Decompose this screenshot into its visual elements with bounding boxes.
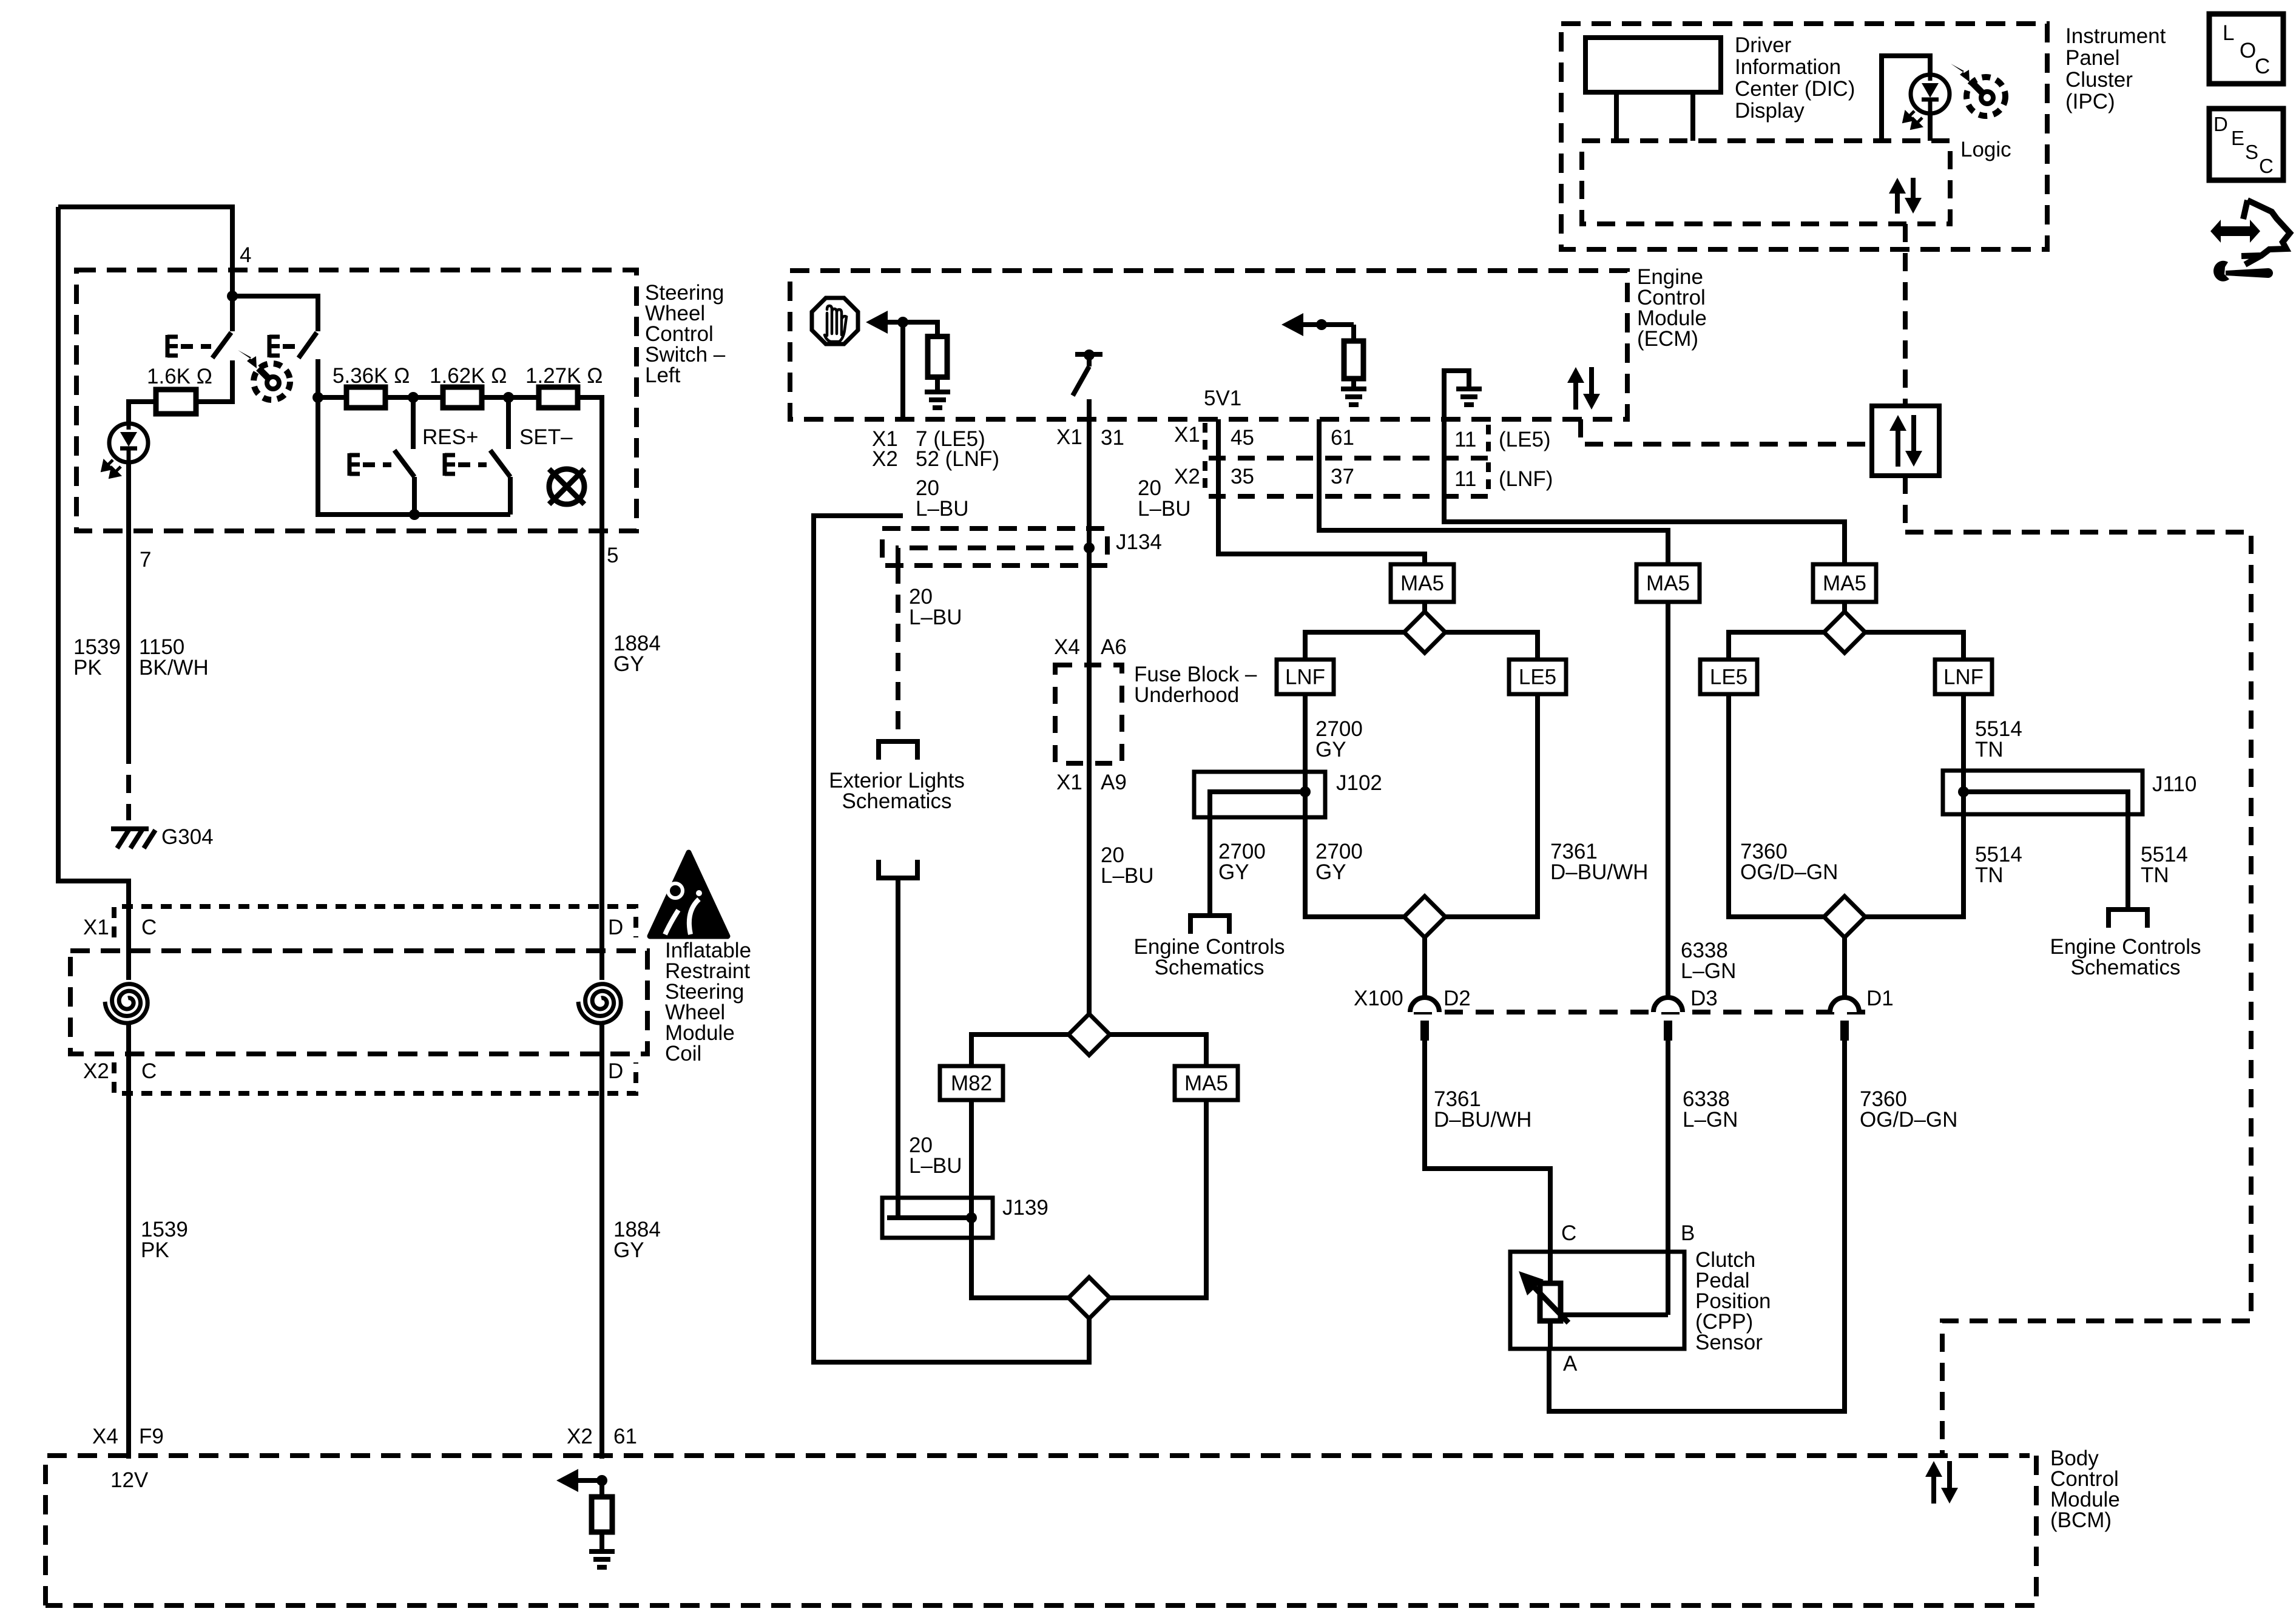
- svg-text:31: 31: [1101, 426, 1124, 450]
- wire pin45 to MA5-1: [1218, 419, 1425, 564]
- svg-text:12V: 12V: [110, 1468, 149, 1492]
- svg-text:LE5: LE5: [1710, 666, 1747, 689]
- svg-text:F9: F9: [139, 1425, 164, 1448]
- connector dotted sep colE b: [1486, 462, 1491, 493]
- junction block J134 outer (dashed): [882, 528, 1107, 565]
- wire diamond6 bottom run: [814, 516, 1089, 1362]
- resistor R1 1.6K: [156, 390, 196, 414]
- wire diamond3 right to LNF-2: [1865, 632, 1963, 660]
- RES+ pivot wire: [411, 397, 416, 449]
- serial data arrows ECM: [1567, 367, 1600, 410]
- switch actuator dashes RES+: [363, 462, 391, 467]
- junction block J110: [1943, 771, 2142, 814]
- svg-text:D3: D3: [1690, 987, 1718, 1010]
- switch S1 stub: [230, 296, 235, 331]
- svg-text:4: 4: [240, 243, 251, 267]
- wire LED down to pin 7: [126, 462, 131, 746]
- svg-text:X1: X1: [1056, 771, 1082, 794]
- wire 2700 GY main down to diamond2: [1305, 817, 1404, 917]
- fuse block underhood box (dashed): [1055, 665, 1122, 763]
- connector X100 pin D3: [1653, 998, 1683, 1041]
- ECM switch arm: [1073, 366, 1089, 396]
- IPC LED loop: [1882, 56, 1930, 141]
- RES+ switch arm: [394, 450, 414, 477]
- svg-text:MA5: MA5: [1400, 572, 1444, 595]
- svg-text:Logic: Logic: [1960, 138, 2011, 161]
- wire pin11 to MA5-3: [1444, 419, 1845, 564]
- lamp symbol switch backlight: [549, 469, 584, 504]
- junction node pin4: [227, 291, 238, 302]
- svg-text:M82: M82: [951, 1072, 992, 1095]
- wire stop node to resistor: [903, 322, 937, 337]
- ECM switch lower wire: [1087, 399, 1092, 419]
- DIC leg right: [1690, 92, 1695, 141]
- connector MA5-3 box: [1813, 564, 1876, 602]
- svg-text:B: B: [1681, 1221, 1695, 1245]
- resistor ECM pullup 2: [1344, 341, 1363, 379]
- connector MA5-4 box: [1175, 1066, 1238, 1100]
- serial data arrows gateway: [1889, 415, 1922, 467]
- serial data gateway box: [1872, 406, 1939, 476]
- airbag warning triangle icon: [650, 852, 728, 936]
- svg-text:5.36K Ω: 5.36K Ω: [333, 364, 410, 388]
- CPP pot lead top: [1548, 1252, 1553, 1283]
- arrow serial out BCM: [556, 1469, 602, 1492]
- wire diamond5 left to M82: [971, 1035, 1069, 1066]
- ground G304 symbol: [111, 829, 155, 848]
- ground ECM internal 3: [1456, 389, 1482, 405]
- wire diamond3 left to LE5-3: [1729, 632, 1824, 660]
- junction ECM node r: [1316, 319, 1327, 330]
- wire MA5-2 down to D3: [1666, 602, 1670, 998]
- svg-text:Fuse Block –Underhood: Fuse Block –Underhood: [1134, 663, 1257, 707]
- svg-text:52 (LNF): 52 (LNF): [916, 447, 999, 471]
- BCM resistor lead top: [599, 1480, 604, 1497]
- splice diamond 2: [1404, 896, 1445, 937]
- wire dashed to G304: [126, 746, 131, 820]
- BCM resistor lead bottom: [599, 1532, 604, 1551]
- junction ECM switch node: [1084, 349, 1095, 360]
- coil winding left: [105, 984, 147, 1023]
- svg-text:X1: X1: [1056, 425, 1082, 449]
- splice diamond 3: [1824, 612, 1865, 653]
- coil X1 connector dotted top staple: [114, 906, 636, 937]
- junction chain node3: [503, 392, 514, 403]
- DIC leg left: [1614, 92, 1619, 141]
- svg-text:LNF: LNF: [1943, 666, 1984, 689]
- switch actuator dashes SET-: [458, 462, 487, 467]
- bracket exterior lights return: [879, 860, 917, 878]
- clutch pedal position sensor box: [1510, 1252, 1684, 1349]
- svg-text:6338L–GN: 6338L–GN: [1683, 1087, 1738, 1132]
- ECM switch top bar: [1075, 352, 1102, 357]
- connector M82 box: [940, 1066, 1003, 1100]
- switch S2 top run: [232, 296, 318, 331]
- J102 internal branch: [1210, 792, 1305, 817]
- wire exterior lights return down: [896, 878, 900, 1218]
- connector MA5-2 box: [1636, 564, 1700, 602]
- arrow to stop hand: [866, 311, 903, 334]
- svg-text:J139: J139: [1002, 1196, 1048, 1220]
- svg-text:X1: X1: [83, 916, 109, 939]
- svg-text:5: 5: [607, 544, 618, 567]
- svg-text:LNF: LNF: [1285, 666, 1325, 689]
- serial data arrows BCM: [1925, 1461, 1958, 1504]
- svg-text:D: D: [608, 1059, 623, 1083]
- svg-text:X4: X4: [92, 1425, 118, 1448]
- potentiometer arrow CPP: [1519, 1271, 1568, 1323]
- wire pin61 to MA5-2: [1319, 419, 1668, 564]
- resistor R4 1.27K: [539, 387, 578, 408]
- svg-text:X2: X2: [872, 447, 898, 471]
- wire diamond4 to X100 D1: [1842, 937, 1847, 998]
- connector dotted sep colC b: [1203, 461, 1207, 493]
- resistor R3 1.62K: [443, 387, 482, 408]
- svg-text:D1: D1: [1866, 987, 1894, 1010]
- svg-text:Engine ControlsSchematics: Engine ControlsSchematics: [2050, 935, 2201, 979]
- bracket exterior lights: [879, 741, 917, 760]
- switch S2 arm: [299, 333, 317, 358]
- connector dotted sep colE: [1486, 425, 1491, 454]
- arrow ECM internal right: [1281, 313, 1354, 336]
- junction J102 node: [1300, 786, 1311, 797]
- instrument panel cluster IPC box (dashed): [1561, 24, 2047, 249]
- chain link c: [482, 395, 538, 400]
- switch S2 fixed terminal: [316, 359, 320, 397]
- svg-text:MA5: MA5: [1823, 572, 1866, 595]
- ground ECM internal 2: [1341, 389, 1366, 405]
- connector dashed row line 1: [1209, 456, 1490, 461]
- splice diamond 6: [1069, 1277, 1110, 1318]
- chain link b: [386, 395, 442, 400]
- chain link d to right wire: [578, 397, 602, 980]
- svg-text:LE5: LE5: [1519, 666, 1556, 689]
- junction block J102: [1194, 772, 1325, 817]
- svg-text:11: 11: [1454, 428, 1476, 451]
- wire 1539 PK lower: [126, 1024, 131, 1459]
- wire R1 to LED: [129, 402, 156, 424]
- potentiometer element CPP: [1540, 1283, 1561, 1321]
- svg-text:J110: J110: [2152, 772, 2196, 796]
- serial data dashed gateway down: [1903, 476, 1908, 532]
- connector X100 pin D1: [1830, 998, 1859, 1041]
- svg-text:G304: G304: [161, 825, 214, 849]
- svg-text:J134: J134: [1116, 530, 1162, 554]
- switch actuator E symbol S2: [269, 335, 280, 357]
- wire left main 1539 run upper: [58, 207, 129, 980]
- svg-text:RES+: RES+: [422, 425, 478, 449]
- wire diamond1 right to LE5-2: [1445, 632, 1538, 660]
- RES+ lower wire: [412, 477, 417, 515]
- connector LE5-2 box: [1509, 660, 1566, 694]
- svg-text:45: 45: [1231, 426, 1254, 450]
- coil winding right: [578, 984, 621, 1023]
- ground BCM internal: [589, 1551, 615, 1567]
- svg-text:7: 7: [140, 548, 151, 572]
- svg-text:1.27K Ω: 1.27K Ω: [525, 364, 603, 388]
- wire ECM r to resistor: [1351, 325, 1356, 341]
- svg-text:1.62K Ω: 1.62K Ω: [430, 364, 507, 388]
- svg-text:D2: D2: [1443, 987, 1471, 1010]
- wire diamond5 right to MA5-4: [1110, 1035, 1206, 1066]
- switch S1 fixed terminal: [196, 360, 232, 402]
- IPC speedometer icon: [1951, 64, 2005, 116]
- wire 5514 TN LNF-2 to J110: [1961, 694, 1966, 814]
- resistor BCM internal: [592, 1497, 612, 1532]
- wire from pin 4 top run: [58, 207, 232, 296]
- junction BCM node: [596, 1475, 607, 1486]
- LED telltale IPC: [1904, 75, 1950, 128]
- LED indicator D1 switch illumination: [103, 424, 148, 477]
- svg-text:(LNF): (LNF): [1499, 467, 1553, 491]
- wire 7361 D2 to CPP C: [1425, 1041, 1550, 1252]
- wire 20 L-BU dashed to exterior lights: [896, 565, 900, 741]
- engine control module ECM box (dashed): [790, 271, 1627, 419]
- wire diamond2 to X100 D2: [1422, 937, 1427, 998]
- inflatable restraint coil module box (dashed): [70, 951, 647, 1054]
- svg-text:Engine ControlsSchematics: Engine ControlsSchematics: [1133, 935, 1285, 979]
- bus wire bottom of switches: [318, 397, 510, 515]
- connector X100 dashed line: [1414, 1010, 1872, 1014]
- switch actuator E symbol RES+: [349, 453, 360, 476]
- SET- pivot wire: [506, 397, 511, 449]
- J139 internal branch: [887, 1215, 971, 1220]
- svg-text:J102: J102: [1336, 771, 1382, 795]
- svg-text:35: 35: [1231, 465, 1254, 488]
- wire LE5-3 down to diamond4: [1729, 694, 1824, 917]
- svg-text:X2: X2: [83, 1059, 109, 1083]
- connector dotted sep colC: [1203, 423, 1207, 454]
- switch actuator E symbol SET-: [445, 453, 455, 476]
- J110 internal branch: [1963, 792, 2128, 814]
- wire 2700 GY LNF-1 to J102: [1303, 694, 1308, 817]
- SET- lower wire: [508, 477, 513, 515]
- svg-text:X1: X1: [1174, 423, 1200, 447]
- ECM resistor2 lead: [1351, 379, 1356, 389]
- wire ECM pin7 drop: [900, 322, 905, 419]
- ECM resistor1 lead: [935, 377, 940, 392]
- junction J110 node: [1958, 786, 1969, 797]
- stop hand octagon icon: [812, 298, 858, 344]
- svg-text:X2: X2: [1174, 465, 1200, 488]
- svg-text:C: C: [141, 916, 157, 939]
- ECM switch stub: [1087, 355, 1092, 366]
- svg-text:A6: A6: [1101, 635, 1127, 659]
- CPP pot lead bottom: [1548, 1321, 1553, 1349]
- svg-text:A9: A9: [1101, 771, 1127, 794]
- wire M82 down through J139: [971, 1100, 1069, 1298]
- junction chain left node: [312, 392, 323, 403]
- serial data arrows IPC logic: [1889, 178, 1922, 214]
- splice diamond 5: [1069, 1014, 1110, 1055]
- connector LNF-1 box: [1277, 660, 1334, 694]
- junction chain node2: [408, 392, 419, 403]
- switch actuator dashes S2: [283, 344, 300, 349]
- DESC reference box: [2209, 109, 2283, 180]
- wire MA5-1 to diamond1: [1422, 602, 1427, 612]
- serial data dashed to BCM: [1905, 532, 2251, 1456]
- svg-text:EngineControlModule(ECM): EngineControlModule(ECM): [1637, 265, 1707, 351]
- svg-text:5V1: 5V1: [1204, 387, 1241, 410]
- wire MA5-4 down to diamond6: [1110, 1100, 1206, 1298]
- svg-text:61: 61: [1331, 426, 1354, 450]
- wire diamond1 left to LNF-1: [1305, 632, 1404, 660]
- wire 5514 TN main to diamond4: [1865, 814, 1963, 917]
- wire 7360 D1 to CPP A: [1549, 1041, 1845, 1411]
- splice diamond 4: [1824, 896, 1865, 937]
- switch actuator dashes S1: [181, 344, 211, 349]
- connector MA5-1 box: [1391, 564, 1454, 602]
- switch S1 arm: [212, 333, 231, 358]
- svg-text:MA5: MA5: [1184, 1072, 1228, 1095]
- svg-text:X100: X100: [1354, 987, 1403, 1010]
- svg-text:6338L–GN: 6338L–GN: [1681, 939, 1736, 983]
- coil X2 connector dotted bottom staple: [114, 1062, 636, 1093]
- connector LE5-3 box: [1700, 660, 1757, 694]
- svg-text:37: 37: [1331, 465, 1354, 488]
- wire 1884 GY lower: [599, 1024, 604, 1459]
- serial data dashed ECM to gateway: [1581, 419, 1872, 444]
- junction ECM stop node: [897, 317, 908, 328]
- resistor ECM pullup 1: [928, 337, 947, 377]
- wire LE5-2 down to diamond2: [1445, 694, 1538, 917]
- wire 5514 TN branch down: [2125, 814, 2130, 910]
- svg-text:X2: X2: [567, 1425, 593, 1448]
- svg-text:A: A: [1563, 1352, 1578, 1376]
- CPP wiper wire: [1561, 1312, 1668, 1317]
- svg-text:(LE5): (LE5): [1499, 428, 1551, 451]
- junction bus node: [409, 509, 420, 520]
- steering wheel control switch module box (dashed): [76, 270, 636, 531]
- junction J134 node: [1084, 542, 1095, 553]
- cruise control speedometer icon: [238, 350, 290, 400]
- wire 6338 D3 to CPP B: [1666, 1041, 1670, 1315]
- svg-text:D: D: [608, 916, 623, 939]
- wire pin31 through fuse block: [1087, 548, 1092, 1014]
- serial data dashed IPC to gateway: [1903, 224, 1908, 406]
- repair tool icon double arrow: [2210, 200, 2290, 282]
- bracket engine controls b: [2109, 910, 2147, 928]
- svg-text:C: C: [141, 1059, 157, 1083]
- svg-text:C: C: [1561, 1221, 1576, 1245]
- svg-text:11: 11: [1454, 467, 1476, 491]
- connector X100 pin D2: [1410, 998, 1439, 1041]
- ground ECM internal 1: [925, 392, 950, 408]
- SET- switch arm: [490, 450, 510, 477]
- svg-text:Exterior LightsSchematics: Exterior LightsSchematics: [829, 769, 965, 813]
- driver information center DIC display box: [1585, 38, 1721, 92]
- junction block J139: [882, 1198, 993, 1238]
- svg-text:MA5: MA5: [1646, 572, 1690, 595]
- svg-text:X4: X4: [1054, 635, 1080, 659]
- wire ECM pin31 down: [1087, 419, 1092, 548]
- wire 2700 GY branch down: [1207, 817, 1212, 916]
- bracket engine controls a: [1190, 916, 1229, 934]
- junction J139 node: [966, 1212, 977, 1223]
- svg-text:SET–: SET–: [519, 425, 573, 449]
- connector dashed row line 2: [1209, 494, 1490, 499]
- chain link a: [318, 395, 346, 400]
- connector LNF-2 box: [1935, 660, 1992, 694]
- splice diamond 1: [1404, 612, 1445, 653]
- wire ECM pin11 internal: [1444, 371, 1469, 419]
- wire MA5-3 to diamond3: [1842, 602, 1847, 612]
- body control module BCM box (dashed): [46, 1456, 2030, 1605]
- LOC reference box: [2209, 14, 2283, 84]
- svg-text:61: 61: [613, 1425, 637, 1448]
- switch actuator E symbol S1: [167, 335, 178, 357]
- resistor R2 5.36K: [346, 387, 385, 408]
- IPC LED loop lower: [1928, 115, 1933, 141]
- IPC logic box (dashed): [1582, 141, 1950, 224]
- svg-text:1.6K Ω: 1.6K Ω: [147, 365, 212, 388]
- J134 inner dashed branch: [898, 548, 1092, 565]
- BCM box outline dashed right: [46, 1456, 2036, 1605]
